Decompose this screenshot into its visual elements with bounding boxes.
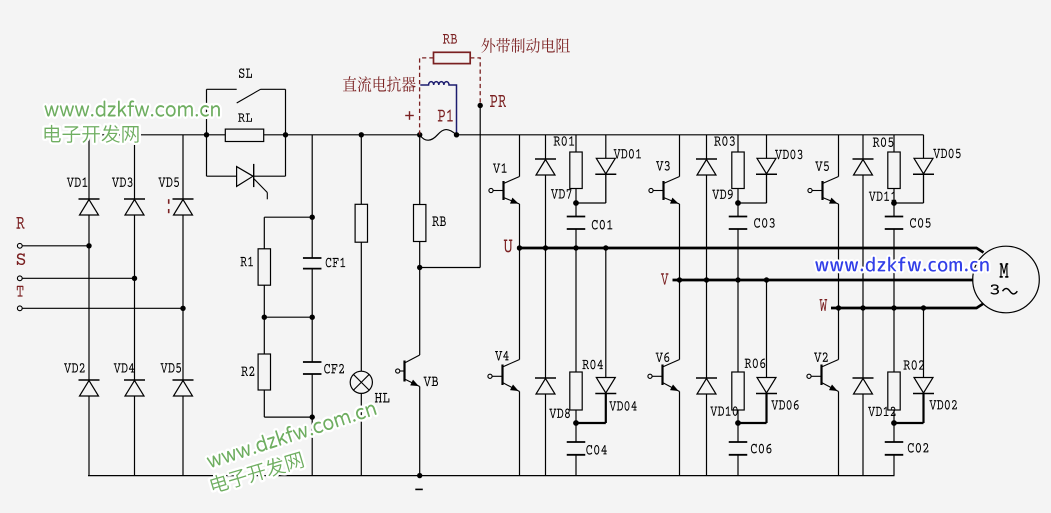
node snubber R05: [891, 200, 897, 206]
inductor (DC reactor): [420, 82, 456, 135]
node mid junction left: [262, 315, 267, 320]
label C02: [908, 443, 929, 453]
lamp HL: [350, 371, 372, 393]
wire top DC+ bus (right part): [457, 134, 924, 136]
label RL: [238, 113, 252, 121]
resistor R1: [258, 249, 270, 285]
diode VD8: [545, 248, 547, 378]
label R05: [873, 137, 894, 147]
label VD8: [549, 408, 570, 418]
wire mid link: [264, 316, 312, 318]
wire snubber link: [765, 394, 767, 424]
motor M 3~: [973, 246, 1040, 313]
diode VD11: [862, 135, 864, 159]
wire R input: [22, 245, 89, 247]
label minus: [415, 488, 423, 490]
node mid junction right: [310, 315, 315, 320]
transistor V2: [838, 308, 840, 360]
wire snubber link: [766, 174, 768, 203]
diode VD7: [545, 135, 547, 159]
label R: [16, 217, 24, 229]
transistor VB: [419, 268, 421, 356]
capacitor C03: [737, 203, 739, 217]
capacitor C02: [893, 423, 895, 442]
wire jumper squiggle: [420, 130, 457, 141]
resistor (bleeder, unlabeled): [355, 204, 367, 242]
diode VD5: [173, 198, 194, 200]
wire W rail: [831, 304, 984, 309]
node S terminal: [17, 276, 22, 281]
label CF2: [324, 364, 344, 374]
label C06: [751, 444, 772, 454]
node HL column top: [359, 132, 364, 137]
label T: [17, 286, 24, 297]
label VD1: [67, 177, 88, 187]
label R06: [745, 359, 766, 369]
label VD05: [933, 149, 960, 159]
resistor R2: [258, 354, 270, 390]
wire SL branch: [206, 89, 208, 135]
capacitor C05: [893, 203, 895, 217]
capacitor C06: [737, 423, 739, 442]
label VD06: [771, 400, 798, 410]
diode VD1: [79, 198, 100, 200]
label VD4: [114, 363, 135, 373]
node CF top junction: [310, 215, 315, 220]
label ~: [1003, 289, 1018, 294]
node snubber R02: [891, 420, 897, 426]
label VD7: [551, 189, 572, 199]
node rail at VD05 column: [921, 305, 926, 310]
label V1: [493, 163, 507, 173]
node snubber R01: [573, 200, 579, 206]
diode VD01: [605, 135, 607, 159]
resistor R06: [737, 280, 739, 372]
diode VD06: [766, 280, 768, 378]
switch SL blade: [237, 89, 261, 103]
node bus junction left of RL: [204, 132, 209, 137]
label R04: [582, 360, 603, 370]
label 直流电抗器: [343, 76, 416, 92]
label R03: [714, 136, 735, 146]
watermark green bottom rotated 电子开发网: [209, 450, 304, 494]
wire HL column: [360, 135, 362, 205]
wire R1 branch: [264, 216, 312, 218]
label V3: [656, 161, 670, 171]
label RB external: [443, 34, 457, 44]
wire top DC+ bus (left part): [89, 134, 420, 136]
transistor V4: [519, 248, 521, 360]
label V: [661, 273, 669, 284]
diode VD04: [605, 248, 607, 378]
watermark green top www.dzkfw.com.cn: [45, 100, 220, 116]
label R1: [240, 257, 253, 267]
wire S input: [22, 277, 134, 279]
wire node to PR column: [420, 267, 481, 269]
capacitor CF2: [303, 361, 322, 363]
label C05: [910, 218, 931, 228]
wire rectifier column x=134.5: [134, 135, 136, 199]
wire V rail: [673, 279, 974, 282]
resistor RL: [225, 129, 263, 141]
node snubber R06: [735, 420, 741, 426]
label 外带制动电阻: [481, 38, 570, 53]
resistor R05: [893, 135, 895, 152]
label V5: [815, 161, 829, 171]
label +: [405, 115, 414, 117]
wire CF column: [311, 135, 313, 258]
label VD5: [158, 177, 179, 187]
label VD02: [929, 400, 956, 410]
diode VD12: [862, 308, 864, 378]
wire U rail: [517, 248, 984, 253]
node bus junction right of RL: [283, 132, 288, 137]
diode VD9: [706, 135, 708, 159]
label VD9: [712, 189, 733, 199]
diode VD02: [923, 308, 925, 378]
label CF1: [326, 258, 345, 268]
wire snubber link: [605, 174, 607, 203]
label VD5 lower: [161, 363, 182, 373]
label VD03: [775, 150, 802, 160]
label VD01: [614, 149, 641, 159]
label VD04: [609, 401, 636, 411]
node T terminal: [17, 306, 22, 311]
label VD10: [710, 406, 737, 416]
node VB emitter on bus: [417, 473, 422, 478]
wire thyristor gate: [254, 179, 268, 193]
diode VD2: [79, 379, 100, 381]
wire snubber link: [922, 394, 924, 424]
label R2: [241, 366, 254, 376]
node snubber R04: [573, 420, 579, 426]
wire snubber link: [605, 394, 607, 424]
resistor RB external (braking): [434, 52, 471, 63]
label HL: [375, 393, 390, 403]
label R01: [554, 136, 575, 146]
node CF bottom junction: [310, 414, 315, 419]
label W: [819, 299, 827, 311]
transistor V3: [679, 135, 681, 177]
node R terminal: [17, 243, 22, 248]
label V4: [495, 351, 509, 361]
label VB: [424, 377, 438, 387]
diode VD05: [923, 135, 925, 159]
diode VD5 (lower): [173, 379, 194, 381]
watermark green bottom rotated www.dzkfw.com.cn: [205, 399, 377, 468]
node snubber R03: [735, 200, 741, 206]
label C01: [592, 220, 613, 230]
diode VD3: [124, 198, 145, 200]
node RB bottom: [417, 265, 422, 270]
transistor V5: [838, 135, 840, 177]
resistor R03: [737, 135, 739, 152]
capacitor C04: [575, 423, 577, 442]
wire snubber link: [923, 174, 925, 203]
label C03: [754, 218, 775, 228]
diode VD4: [124, 379, 145, 381]
watermark green top 电子开发网: [45, 125, 139, 143]
wire rectifier column x=183: [182, 135, 184, 199]
label U: [504, 239, 513, 252]
label SL: [239, 68, 252, 78]
label R02: [903, 360, 924, 370]
label M: [999, 263, 1008, 278]
wire thyristor branch: [206, 135, 208, 176]
wire T input: [22, 307, 183, 309]
label P1: [438, 110, 453, 122]
capacitor CF1: [303, 257, 322, 259]
label V6: [656, 352, 670, 362]
node PR terminal: [478, 103, 483, 108]
node rail at VD01 column: [603, 245, 608, 250]
resistor RB internal: [414, 205, 426, 242]
wire dashed right to PR: [470, 58, 480, 104]
node rail at VD03 column: [764, 277, 769, 282]
label V2: [814, 352, 828, 362]
resistor R04: [575, 248, 577, 372]
wire RB column: [419, 135, 421, 205]
label VD11: [869, 191, 896, 201]
diode VD03: [766, 135, 768, 159]
artifact maroon dashes near VD5: [168, 199, 170, 204]
thyristor: [237, 167, 253, 187]
resistor R01: [575, 135, 577, 152]
transistor V1: [519, 135, 521, 177]
transistor V6: [679, 280, 681, 360]
watermark blue www.dzkfw.com.cn: [815, 257, 988, 272]
label C04: [586, 445, 607, 455]
label VD2: [64, 363, 85, 373]
diode VD10: [706, 280, 708, 378]
node P1 terminal: [454, 132, 459, 137]
resistor R02: [893, 308, 895, 372]
label VD3: [112, 177, 133, 187]
label RB: [432, 216, 446, 226]
label 3: [990, 284, 999, 294]
wire dashed left: [420, 58, 434, 135]
label S: [17, 253, 25, 265]
capacitor C01: [575, 203, 577, 217]
label PR: [490, 95, 506, 107]
label VD12: [868, 407, 895, 417]
wire bottom DC- bus: [88, 475, 895, 477]
node + terminal on bus: [417, 132, 422, 137]
wire rectifier column x=89: [88, 135, 90, 199]
